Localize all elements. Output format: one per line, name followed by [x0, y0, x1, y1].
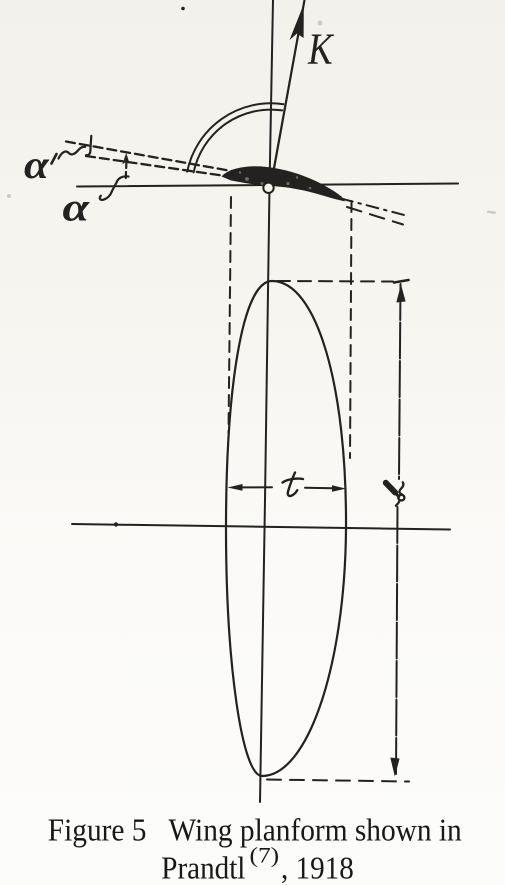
t dimension left arrow — [228, 484, 243, 491]
center circle on airfoil — [263, 183, 273, 193]
svg-text:(7): (7) — [250, 844, 280, 868]
svg-text:K: K — [307, 25, 334, 74]
wire: dashed extension lower-right — [347, 207, 403, 225]
scan speck top — [181, 7, 185, 11]
wire: chord dashed line upper-left — [66, 142, 237, 173]
wire: chord dash-dot extension lower-right — [341, 199, 408, 217]
airfoil white speckles — [239, 171, 312, 189]
dashed horizontal at ellipse bottom — [267, 780, 409, 782]
alpha-prime leader squiggle — [59, 147, 86, 159]
wire: flow dashed line lower-left — [86, 156, 243, 179]
horizontal line through airfoil — [77, 184, 458, 187]
K vector arrowhead — [290, 4, 304, 40]
chord dimension line t left segment — [240, 486, 272, 488]
svg-text:α: α — [63, 185, 90, 229]
faint scan smudges — [7, 21, 496, 214]
b dimension top arrow — [396, 285, 405, 303]
svg-text:Figure 5 Wing planform shown: Figure 5 Wing planform shown in — [48, 812, 462, 847]
svg-text:, 1918: , 1918 — [281, 850, 354, 885]
span dimension line b — [396, 284, 401, 776]
vertical axis line — [260, 0, 273, 802]
span dimension top T-bar — [394, 280, 409, 283]
label t (script) — [288, 473, 298, 496]
horizontal centerline — [72, 524, 450, 530]
airfoil section — [222, 166, 346, 201]
b dimension bottom arrow — [390, 758, 399, 777]
svg-text:α: α — [24, 143, 50, 187]
chord dimension line t right segment — [305, 487, 334, 489]
K vector shaft — [269, 0, 305, 188]
angle arc inner — [194, 110, 283, 173]
alpha tick arrowhead — [122, 153, 129, 165]
alpha integral-curl marker — [100, 176, 129, 200]
label b (script) — [386, 483, 395, 493]
t dimension right arrow — [332, 485, 346, 492]
prime mark of alpha-prime — [52, 154, 57, 164]
left dashed vertical line — [229, 197, 232, 433]
alpha tick arrow shaft — [125, 158, 128, 178]
dashed horizontal at ellipse top — [277, 280, 393, 283]
alpha-prime tick marker — [86, 136, 91, 155]
svg-text:Prandtl: Prandtl — [161, 850, 245, 885]
scan speck on centerline — [114, 522, 118, 526]
right dashed vertical line — [350, 201, 352, 458]
angle arc outer — [187, 103, 283, 171]
ellipse wing planform — [226, 281, 346, 776]
